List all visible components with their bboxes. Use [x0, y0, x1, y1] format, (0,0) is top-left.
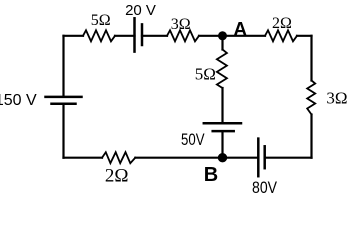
wire 2ohm to top-right corner [297, 35, 312, 37]
resistor R 2ohm bottom [102, 152, 135, 163]
svg-text:3Ω: 3Ω [326, 89, 347, 108]
wire 50V battery to node B [221, 131, 223, 158]
svg-text:80V: 80V [252, 178, 278, 197]
node B junction dot [218, 153, 227, 162]
wire left side upper [62, 36, 64, 96]
svg-text:A: A [233, 20, 247, 41]
resistor R 5ohm middle vertical [217, 50, 227, 89]
battery 150 V plates [46, 97, 82, 104]
wire 5ohm middle to 50V battery [221, 88, 223, 122]
wire 2ohm bottom to node B [135, 157, 222, 159]
resistor R 3ohm top [167, 30, 199, 41]
svg-text:50V: 50V [181, 130, 205, 149]
battery 80V plates [258, 139, 264, 177]
wire 20V battery to 3ohm [142, 35, 167, 37]
battery 20 V plates [135, 18, 143, 51]
svg-text:2Ω: 2Ω [272, 15, 292, 32]
wire 5ohm to 20V battery [115, 35, 135, 37]
battery 50V plates [204, 123, 241, 131]
svg-text:20 V: 20 V [125, 2, 156, 19]
svg-text:150 V: 150 V [0, 92, 37, 109]
svg-text:5Ω: 5Ω [91, 12, 111, 29]
wire right side upper [310, 36, 312, 81]
wire node B to 80V battery [223, 157, 259, 159]
svg-text:5Ω: 5Ω [195, 65, 216, 84]
svg-text:B: B [204, 164, 218, 186]
wire node A to 2ohm [223, 35, 266, 37]
wire right side lower [310, 115, 312, 158]
resistor R 5ohm top [83, 30, 115, 41]
wire top-left horizontal [64, 35, 84, 37]
wire bottom-left horizontal [64, 157, 103, 159]
resistor R 3ohm right vertical [307, 81, 315, 115]
resistor R 2ohm top [265, 30, 297, 41]
svg-text:3Ω: 3Ω [171, 16, 191, 33]
wire node A down to 5ohm middle [221, 36, 223, 50]
wire 80V battery to bottom-right corner [265, 157, 312, 159]
node A junction dot [218, 31, 227, 40]
svg-text:2Ω: 2Ω [105, 166, 129, 187]
wire 3ohm to node A [199, 35, 223, 37]
wire left side lower [62, 104, 64, 158]
